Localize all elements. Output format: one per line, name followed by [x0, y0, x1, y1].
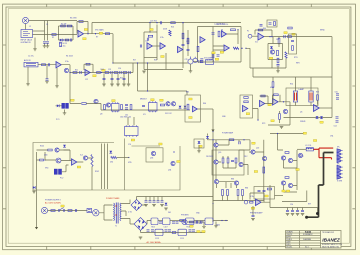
- capacitor C17: [111, 78, 114, 79]
- AC inlet plug: [41, 207, 47, 213]
- level box: [206, 60, 214, 65]
- ground mr: [280, 127, 284, 129]
- resistor R34: [212, 53, 214, 58]
- wire trem bot: [284, 116, 333, 118]
- op-amp U3C: [178, 46, 183, 52]
- value label rec1: [246, 113, 249, 115]
- wire box5: [198, 27, 242, 63]
- resistor R102: [91, 155, 93, 167]
- muting box: [194, 139, 204, 148]
- svg-text:Q22: Q22: [256, 148, 259, 150]
- diode D7: [320, 116, 323, 118]
- value label pa1: [254, 171, 257, 173]
- ground hp2: [291, 214, 295, 216]
- op-amp U8B: [260, 100, 265, 106]
- op-amp U1A: [78, 31, 84, 38]
- svg-text:D S1: D S1: [128, 212, 132, 214]
- resistor R51: [279, 114, 281, 120]
- value label rl1: [282, 190, 285, 192]
- ground c11: [45, 81, 49, 83]
- resistor R89: [285, 152, 289, 154]
- value label pa4: [252, 142, 255, 144]
- wire s6 fb: [255, 30, 273, 44]
- op-amp U7: [193, 106, 198, 112]
- transistor Q28: [281, 181, 285, 185]
- net label V-: [202, 231, 205, 233]
- svg-text:7815: 7815: [151, 226, 155, 228]
- capacitor C115: [189, 230, 192, 231]
- diode D12: [184, 106, 187, 108]
- transistor Q6: [283, 109, 287, 113]
- node n3: [87, 33, 88, 34]
- svg-text:C25: C25: [185, 59, 188, 61]
- node c3a: [156, 22, 157, 23]
- resistor R10: [42, 64, 46, 66]
- capacitor C42: [269, 23, 272, 24]
- ground lane2d: [122, 84, 126, 86]
- value label u1b: [83, 38, 86, 40]
- op-amp U9: [256, 199, 262, 206]
- node fx1: [44, 159, 45, 160]
- capacitor C40: [260, 25, 263, 26]
- svg-text:C21 R22: C21 R22: [150, 20, 157, 22]
- capacitor C24: [140, 45, 141, 48]
- capacitor C44: [277, 65, 280, 66]
- aux box: [267, 20, 277, 27]
- resistor R63: [130, 105, 132, 110]
- node rail a: [212, 131, 213, 132]
- resistor R90: [285, 177, 289, 179]
- op-amp U4C: [224, 45, 229, 51]
- value label fx1: [77, 166, 80, 168]
- preamp box: [185, 95, 201, 122]
- svg-text:TA35: TA35: [305, 230, 312, 234]
- wire out v: [278, 134, 298, 193]
- value label rl2: [286, 190, 289, 192]
- lamp LA1: [293, 91, 297, 102]
- capacitor C82b: [231, 160, 234, 161]
- resistor R87: [263, 167, 265, 173]
- wire relay out: [275, 195, 284, 197]
- capacitor C23: [187, 49, 190, 50]
- capacitor C51: [336, 98, 339, 99]
- svg-text:IC4: IC4: [80, 155, 83, 157]
- wire br2 in: [130, 223, 134, 225]
- wire rec out: [253, 109, 259, 121]
- resistor R24: [187, 38, 189, 44]
- resistor R48: [277, 58, 279, 63]
- svg-text:R97: R97: [308, 204, 311, 206]
- node pa1: [243, 139, 244, 140]
- regulator IC4: [151, 218, 158, 225]
- fuse F1: [51, 210, 55, 212]
- wire pot gnd: [190, 64, 192, 70]
- transistor Q27: [288, 158, 292, 162]
- wire q1 gnd: [56, 68, 58, 86]
- resistor R15: [114, 72, 118, 74]
- wire chain4b: [214, 47, 242, 62]
- input jack J2: [21, 30, 33, 38]
- diode D32: [63, 145, 66, 147]
- value label b5c: [215, 58, 218, 60]
- wire u2 out: [61, 65, 70, 104]
- resistor R5b: [60, 42, 62, 47]
- resistor R6: [79, 21, 83, 23]
- wire to trans: [99, 205, 113, 220]
- transistor Q25: [234, 181, 238, 185]
- wire s6 in: [246, 48, 286, 68]
- wire c3 top2: [144, 31, 157, 33]
- wire u1 out: [84, 23, 93, 34]
- ground c3: [142, 71, 146, 73]
- resistor R46: [274, 22, 276, 26]
- resistor R22: [169, 30, 171, 36]
- transistor Q7: [94, 99, 98, 103]
- resistor R88: [268, 188, 272, 190]
- wire fxv: [37, 144, 108, 230]
- svg-text:T1: T1: [115, 226, 117, 228]
- op-amp U3A: [147, 43, 152, 49]
- capacitor C3: [70, 39, 71, 42]
- value label s6c: [284, 32, 287, 34]
- net label +B: [303, 132, 306, 134]
- ground j3: [26, 84, 30, 86]
- svg-text:R54: R54: [290, 84, 293, 86]
- capacitor C50: [336, 94, 339, 95]
- svg-text:AC 100V AREA: AC 100V AREA: [147, 241, 162, 244]
- diode D6: [316, 116, 319, 118]
- resistor R110: [68, 210, 72, 212]
- net label bias: [296, 169, 299, 171]
- value label sw1: [61, 205, 64, 207]
- ground c1: [43, 46, 47, 48]
- wire u6b out: [319, 107, 332, 109]
- value label mr1: [271, 120, 274, 122]
- svg-text:GND: GND: [216, 225, 221, 227]
- svg-text:C50: C50: [335, 92, 338, 94]
- svg-text:DRIVE: DRIVE: [300, 121, 306, 123]
- svg-text:PC2: PC2: [60, 178, 63, 180]
- wire reg4: [213, 221, 228, 226]
- value label s6b: [269, 57, 272, 59]
- relay box: [254, 187, 275, 200]
- value label pb1: [189, 98, 192, 100]
- wire u7 out: [197, 108, 213, 110]
- resistor R80: [229, 139, 234, 141]
- svg-text:POWER SUPPLY: POWER SUPPLY: [45, 200, 62, 202]
- capacitor C92: [296, 210, 299, 211]
- optocoupler PC2: [54, 169, 62, 175]
- node n2: [63, 39, 64, 40]
- node xa: [137, 62, 138, 63]
- op-amp U5A: [258, 33, 264, 40]
- speaker connector CN1: [337, 149, 343, 163]
- capacitor C112: [151, 230, 154, 231]
- svg-text:R73: R73: [262, 123, 265, 125]
- svg-text:C14: C14: [118, 68, 121, 70]
- transistor Q31: [56, 158, 61, 163]
- svg-text:J2: J2: [29, 26, 31, 28]
- capacitor C111: [147, 230, 150, 231]
- AC connector CN3: [87, 208, 92, 212]
- resistor R14: [105, 72, 109, 74]
- wire fx2: [45, 159, 71, 162]
- node b5a: [221, 29, 222, 30]
- wire ic3 stub: [128, 117, 134, 125]
- wire r51: [279, 111, 281, 123]
- node n4: [95, 33, 96, 34]
- capacitor C14: [120, 71, 121, 74]
- resistor R86: [242, 190, 244, 196]
- regulator IC9: [178, 229, 187, 235]
- wire to bus: [112, 34, 114, 63]
- svg-text:IC6: IC6: [255, 42, 258, 44]
- svg-text:C1: C1: [46, 24, 48, 26]
- resistor R64: [160, 104, 164, 106]
- wire c1 stub: [45, 44, 48, 46]
- value label relay: [265, 195, 268, 197]
- wire u6a fb: [273, 95, 291, 102]
- red wire A: [313, 148, 333, 149]
- transistor Q10: [171, 102, 175, 106]
- wire lamp stubs: [296, 77, 312, 106]
- resistor R72: [261, 95, 265, 97]
- ground r48: [276, 71, 280, 73]
- capacitor C34: [199, 60, 200, 63]
- black wire blob: [305, 216, 308, 219]
- wire br1 out: [137, 197, 214, 206]
- op-amp U8A: [243, 105, 248, 111]
- node fx3: [173, 151, 174, 152]
- node xb: [147, 62, 148, 63]
- svg-text:TROUBADOUR: TROUBADOUR: [322, 231, 335, 234]
- resistor R41: [278, 38, 280, 44]
- svg-text:C12: C12: [85, 79, 88, 81]
- capacitor C93: [301, 210, 304, 211]
- resistor R30: [197, 46, 199, 51]
- transistor Q8: [106, 103, 110, 107]
- wire trem top: [253, 68, 332, 77]
- transistor Q22: [251, 150, 255, 154]
- wire fx4: [45, 150, 92, 190]
- wire j3 out: [38, 64, 56, 66]
- amp input box: [212, 150, 244, 175]
- wire crossover rect: [138, 63, 188, 95]
- capacitor C21: [147, 38, 148, 41]
- ground fx arrow: [35, 227, 38, 229]
- resistor R47: [292, 46, 294, 51]
- wire pa bot: [213, 196, 264, 201]
- capacitor C100: [75, 209, 76, 212]
- svg-text:Q30: Q30: [44, 155, 47, 157]
- wire coil in: [297, 148, 306, 150]
- transistor Q5: [270, 50, 274, 54]
- node lane2b: [101, 72, 102, 73]
- node pa2: [263, 159, 264, 160]
- svg-text:C61: C61: [125, 115, 128, 117]
- resistor R112: [172, 232, 176, 234]
- resistor R60: [82, 103, 86, 105]
- ic IC1: [112, 102, 120, 112]
- svg-text:Q33: Q33: [150, 158, 153, 160]
- svg-text:R7: R7: [96, 37, 98, 39]
- ground psu2: [152, 205, 156, 207]
- wire mid lane y63: [113, 62, 188, 64]
- chassis ground: [316, 212, 319, 215]
- value label tc1: [150, 29, 153, 31]
- node fx2: [128, 157, 129, 158]
- resistor R111: [180, 220, 184, 222]
- svg-text:C115: C115: [180, 238, 184, 240]
- wire trans out: [121, 200, 130, 225]
- wire pa top: [208, 140, 251, 150]
- wire jack out A: [33, 30, 45, 32]
- capacitor C33: [200, 61, 203, 62]
- capacitor C90: [286, 210, 289, 211]
- op-amp U4B: [222, 31, 227, 37]
- svg-text:R86: R86: [245, 188, 248, 190]
- value label s6: [292, 33, 295, 35]
- ground mute: [197, 151, 201, 153]
- svg-text:EQ AMP: EQ AMP: [206, 58, 214, 61]
- svg-text:Q20: Q20: [218, 152, 221, 154]
- wire c11 stub: [46, 65, 48, 79]
- resistor R103: [111, 156, 117, 158]
- potentiometer VR2: [188, 57, 193, 65]
- ground pc1: [63, 113, 67, 115]
- resistor R21: [148, 35, 152, 37]
- svg-text:C52: C52: [334, 126, 337, 128]
- wire fx5: [37, 150, 71, 160]
- value label u2b: [93, 75, 96, 77]
- svg-text:C23: C23: [186, 41, 189, 43]
- svg-text:R100: R100: [40, 146, 44, 148]
- capacitor C18: [117, 78, 120, 79]
- wire phones L: [282, 191, 307, 202]
- resistor R1: [52, 34, 56, 36]
- value label ic3: [131, 139, 134, 141]
- wire u1 chain: [92, 33, 113, 35]
- capacitor C61: [125, 108, 128, 109]
- ground q1: [55, 86, 59, 88]
- node rec1: [257, 119, 258, 120]
- wire r41: [278, 37, 280, 47]
- wire rail 213: [212, 109, 214, 222]
- ground jack: [33, 49, 37, 51]
- value label hp: [251, 207, 254, 209]
- diode D30: [109, 151, 112, 153]
- wire band left: [56, 104, 82, 106]
- node s6b: [271, 36, 272, 37]
- wire jack gnd: [34, 38, 36, 49]
- ground hp5: [251, 219, 255, 221]
- wire cluster3 frame: [144, 23, 188, 70]
- node reg2: [225, 220, 226, 221]
- wire fx1: [37, 149, 71, 151]
- capacitor C16: [103, 78, 106, 79]
- wire long bus: [92, 22, 241, 24]
- resistor R40: [258, 29, 263, 31]
- ground hp3: [296, 214, 300, 216]
- transistor Q9: [166, 102, 170, 106]
- svg-text:LAMP: LAMP: [299, 88, 305, 91]
- resistor R95: [250, 201, 253, 203]
- wire s6 box: [268, 44, 283, 60]
- capacitor C60: [125, 104, 128, 105]
- node bus1: [149, 22, 150, 23]
- wire mr v: [268, 102, 290, 125]
- node c3c: [149, 31, 150, 32]
- bridge rectifier BR1: [131, 200, 142, 211]
- svg-text:D1 C4 R5: D1 C4 R5: [59, 43, 67, 45]
- resistor R65: [187, 104, 189, 110]
- node b5b: [237, 29, 238, 30]
- capacitor C15: [129, 71, 130, 74]
- capacitor C113: [165, 230, 168, 231]
- capacitor C32: [200, 59, 203, 60]
- svg-text:D41: D41: [168, 212, 171, 214]
- capacitor C110: [199, 222, 202, 223]
- capacitor C19: [123, 78, 126, 79]
- resistor R44: [285, 52, 287, 58]
- value label fx2: [159, 143, 162, 145]
- svg-text:AC 100V 50/60Hz: AC 100V 50/60Hz: [45, 202, 61, 205]
- svg-text:7915: 7915: [186, 226, 190, 228]
- svg-text:C113: C113: [155, 238, 159, 240]
- svg-text:8 OHM: 8 OHM: [337, 181, 343, 183]
- capacitor C104: [157, 201, 160, 202]
- capacitor C91: [291, 210, 294, 211]
- ground reg: [214, 226, 218, 228]
- wire loop1: [59, 22, 79, 41]
- optocoupler PC1: [62, 103, 69, 109]
- recovery box: [240, 95, 253, 118]
- node lane2a: [69, 72, 70, 73]
- resistor R16: [123, 72, 127, 74]
- wire br2 out: [147, 221, 151, 225]
- capacitor C80: [239, 141, 240, 144]
- op-amp U2A: [56, 62, 61, 68]
- capacitor C94: [252, 215, 255, 216]
- svg-text:NAGOYA JAPAN 1984: NAGOYA JAPAN 1984: [322, 245, 339, 248]
- wire c3 mid: [144, 57, 157, 59]
- transistor Q1: [64, 68, 68, 72]
- input connector J3: [24, 62, 38, 67]
- svg-text:L1 COIL: L1 COIL: [305, 145, 311, 147]
- bridge rectifier BR2: [134, 218, 147, 231]
- effect return box: [289, 34, 297, 54]
- resistor R3: [67, 25, 72, 27]
- ground pot: [189, 71, 193, 73]
- svg-text:Q6: Q6: [300, 112, 302, 114]
- fx loop box: [33, 139, 180, 191]
- svg-text:R40: R40: [263, 28, 266, 30]
- ic IC2: [149, 101, 158, 112]
- wire hp stub: [252, 206, 254, 215]
- node n1: [58, 34, 59, 35]
- diode D31: [33, 186, 35, 189]
- ground phones: [202, 226, 206, 228]
- ground lane2a: [102, 84, 106, 86]
- svg-text:C107: C107: [164, 226, 168, 228]
- node xc: [147, 90, 148, 91]
- wire reg1: [158, 220, 163, 222]
- resistor R81: [222, 158, 224, 163]
- resistor R71: [244, 101, 248, 103]
- power switch SW1: [58, 208, 65, 212]
- value label tc2: [161, 56, 164, 58]
- op-amp U4A: [200, 37, 205, 43]
